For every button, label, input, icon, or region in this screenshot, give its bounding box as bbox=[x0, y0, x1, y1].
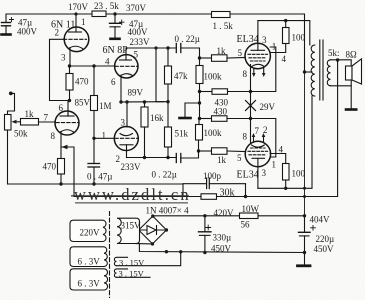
svg-text:23 . 5k: 23 . 5k bbox=[94, 1, 119, 11]
node EL34 lower grid bbox=[197, 149, 200, 152]
transformer 6.3V winding 1 bbox=[70, 247, 107, 267]
wire V1a grid to lower node bbox=[50, 39, 70, 100]
capacitor 220u 450V bbox=[299, 216, 316, 254]
svg-text:3: 3 bbox=[61, 53, 66, 63]
resistor 1k input bbox=[21, 119, 56, 126]
transformer 3.15V winding 2 bbox=[114, 269, 127, 277]
resistor 1.5k bbox=[212, 12, 231, 18]
resistor 430 upper bbox=[200, 89, 251, 95]
svg-text:0 . 22µ: 0 . 22µ bbox=[175, 34, 200, 44]
svg-text:470: 470 bbox=[75, 77, 89, 87]
svg-text:16k: 16k bbox=[150, 113, 164, 123]
svg-text:3: 3 bbox=[121, 118, 126, 128]
resistor 470 cathode V1b bbox=[58, 147, 65, 186]
node 430 upper junction bbox=[198, 90, 201, 93]
OPT primary winding bbox=[311, 45, 315, 96]
resistor 1k lower grid stopper bbox=[199, 148, 246, 155]
wire V2b plate 233V lower bbox=[127, 157, 177, 159]
transformer 3.15V winding 1 bbox=[114, 257, 127, 265]
svg-text:0 . 47µ: 0 . 47µ bbox=[87, 172, 112, 182]
svg-text:85V: 85V bbox=[75, 98, 91, 108]
tube V2a 6N8P first triode bbox=[115, 48, 138, 102]
svg-text:220V: 220V bbox=[80, 228, 101, 238]
input terminal bbox=[8, 92, 15, 115]
svg-text:8: 8 bbox=[243, 69, 248, 79]
resistor 430 lower bbox=[200, 116, 251, 122]
transformer 6.3V winding 2 bbox=[70, 269, 108, 290]
wire EL34 upper cathode bbox=[250, 65, 252, 92]
wire to V1b plate bbox=[67, 101, 69, 117]
svg-text:29V: 29V bbox=[260, 102, 276, 112]
svg-text:2: 2 bbox=[55, 28, 60, 38]
svg-text:EL34: EL34 bbox=[237, 34, 259, 45]
wire EL34 lower cathode bbox=[250, 141, 252, 144]
svg-text:220µ: 220µ bbox=[316, 234, 335, 244]
svg-text:89V: 89V bbox=[128, 88, 144, 98]
svg-text:450V: 450V bbox=[314, 244, 335, 254]
node V1b cathode junction with NFB arrow bbox=[61, 145, 74, 197]
ground speaker bbox=[346, 108, 356, 111]
svg-text:100p: 100p bbox=[203, 171, 222, 181]
svg-text:3 . 15V: 3 . 15V bbox=[119, 257, 145, 267]
wire EL34 upper plate to OPT bbox=[258, 21, 310, 45]
wire V2b cathode riser bbox=[126, 102, 128, 127]
svg-text:8: 8 bbox=[243, 132, 248, 142]
wire 430 center column + ground bbox=[185, 92, 201, 119]
wire secondary bottom bbox=[331, 85, 352, 87]
svg-text:www.dzdlt.cn: www.dzdlt.cn bbox=[74, 185, 191, 204]
node 470 bottom bbox=[68, 99, 71, 102]
svg-text:1 . 5k: 1 . 5k bbox=[213, 21, 234, 31]
svg-text:1k: 1k bbox=[25, 109, 35, 119]
resistor 51k bbox=[165, 102, 172, 160]
ground PSU bbox=[298, 253, 311, 266]
ground C2 bbox=[111, 37, 120, 40]
transformer core dashed bbox=[109, 212, 111, 298]
tube EL34 upper bbox=[245, 21, 270, 69]
tube V1a 6N11 first triode bbox=[64, 14, 89, 66]
svg-text:6: 6 bbox=[59, 103, 64, 113]
svg-text:400V: 400V bbox=[128, 27, 149, 37]
svg-text:1: 1 bbox=[272, 160, 277, 170]
svg-text:47k: 47k bbox=[174, 71, 188, 81]
wire EL34 lower plate to OPT bbox=[258, 96, 312, 188]
wire V2a plate 233V bbox=[126, 47, 176, 49]
wire g3 tie upper bbox=[251, 47, 276, 92]
svg-text:330µ: 330µ bbox=[213, 233, 232, 243]
svg-text:1: 1 bbox=[272, 42, 277, 52]
svg-text:233V: 233V bbox=[130, 37, 151, 47]
svg-text:6 . 3V: 6 . 3V bbox=[78, 257, 101, 267]
svg-text:100: 100 bbox=[292, 169, 306, 179]
resistor 1M bbox=[91, 64, 98, 138]
wire 420V rail bbox=[153, 215, 240, 217]
node tap dot bbox=[303, 70, 306, 73]
resistor R 470 (SRPP) bbox=[66, 66, 73, 101]
wire screen lower bbox=[270, 154, 286, 164]
transformer primary 220V winding bbox=[70, 220, 106, 241]
capacitor 0.22u upper bbox=[176, 44, 199, 59]
wire NFB to secondary bbox=[246, 60, 338, 197]
OPT secondary winding bbox=[327, 60, 330, 86]
node V2a cathode bbox=[119, 100, 122, 103]
resistor 23.5k bbox=[92, 11, 106, 17]
svg-text:8: 8 bbox=[51, 131, 56, 141]
svg-text:100k: 100k bbox=[204, 72, 223, 82]
wire 3.15V lower lead bbox=[117, 276, 151, 278]
svg-text:8Ω: 8Ω bbox=[346, 50, 358, 60]
svg-text:7: 7 bbox=[255, 126, 260, 136]
wire screen upper bbox=[270, 44, 286, 53]
svg-text:315V: 315V bbox=[121, 221, 142, 231]
OPT core bbox=[320, 40, 323, 100]
svg-text:3 . 15V: 3 . 15V bbox=[119, 269, 145, 279]
svg-text:100: 100 bbox=[292, 33, 306, 43]
svg-text:170V: 170V bbox=[68, 2, 89, 12]
X mark 29V bbox=[246, 101, 256, 111]
svg-text:450V: 450V bbox=[211, 244, 232, 254]
wire cathode column with X bbox=[250, 92, 252, 141]
svg-text:6 . 3V: 6 . 3V bbox=[78, 279, 101, 289]
wire B+ riser below tap bbox=[304, 72, 306, 216]
PSU: 1N4007 bridge bbox=[137, 214, 168, 245]
svg-text:100k: 100k bbox=[204, 128, 223, 138]
svg-text:1k: 1k bbox=[217, 155, 227, 165]
svg-text:4: 4 bbox=[105, 57, 110, 67]
heater pins EL34 lower bbox=[252, 133, 266, 142]
svg-text:2: 2 bbox=[263, 125, 268, 135]
capacitor C1 47u 400V bbox=[2, 18, 14, 34]
wire PSU 0V line bbox=[139, 244, 304, 253]
resistor 100k upper bbox=[196, 58, 203, 92]
tube EL34 lower (inverted) bbox=[245, 141, 270, 188]
wire 1M to V2b grid bbox=[94, 137, 115, 139]
wire cathode bus y=102 bbox=[121, 101, 168, 103]
svg-text:2: 2 bbox=[116, 154, 121, 164]
potentiometer 50k bbox=[5, 115, 21, 185]
wire top B+ rail 170V section bbox=[6, 14, 92, 22]
wire top rail to OPT center tap bbox=[230, 14, 305, 72]
node 1M bottom bbox=[92, 137, 95, 140]
ground C1 bbox=[2, 33, 11, 36]
svg-text:1: 1 bbox=[102, 131, 107, 141]
svg-text:5: 5 bbox=[238, 48, 243, 58]
svg-text:3: 3 bbox=[262, 35, 267, 45]
capacitor 0.22u lower bbox=[176, 151, 198, 163]
svg-text:1: 1 bbox=[81, 17, 86, 27]
wire secondary top to speaker bbox=[331, 60, 352, 66]
svg-text:1k: 1k bbox=[217, 46, 227, 56]
wire tap stub bbox=[305, 71, 313, 73]
svg-text:30k: 30k bbox=[220, 188, 235, 199]
svg-text:EL34: EL34 bbox=[237, 170, 259, 181]
node EL34 upper grid bbox=[198, 56, 201, 59]
svg-text:7: 7 bbox=[44, 113, 49, 123]
transformer 315V winding bbox=[117, 218, 140, 243]
svg-text:6N 8P: 6N 8P bbox=[103, 45, 129, 56]
speaker bbox=[346, 59, 362, 109]
svg-text:0 . 22µ: 0 . 22µ bbox=[152, 170, 177, 180]
svg-text:50k: 50k bbox=[14, 129, 28, 139]
node 430 lower junction bbox=[198, 117, 201, 120]
capacitor 0.47u bbox=[88, 138, 100, 185]
NFB network 100p + 30k bbox=[74, 178, 247, 199]
capacitor C2 47u 400V bbox=[110, 12, 125, 38]
heater pins EL34 upper bbox=[252, 68, 266, 78]
svg-text:3: 3 bbox=[262, 168, 267, 178]
resistor 100 lower bbox=[283, 164, 290, 191]
svg-text:1M: 1M bbox=[99, 101, 112, 111]
resistor 16k bbox=[141, 100, 148, 159]
svg-text:51k: 51k bbox=[175, 129, 189, 139]
svg-text:370V: 370V bbox=[126, 3, 147, 13]
resistor 100 upper bbox=[283, 19, 290, 44]
tube V1b 6N11 second triode bbox=[55, 111, 79, 147]
svg-text:470: 470 bbox=[43, 162, 57, 172]
resistor 47k bbox=[165, 46, 172, 103]
wire heater center tap bbox=[117, 252, 181, 266]
wire plate-to-cathode-node link bbox=[156, 48, 164, 102]
resistor 1k upper grid stopper bbox=[200, 55, 246, 62]
svg-text:400V: 400V bbox=[17, 27, 38, 37]
svg-text:1N 4007× 4: 1N 4007× 4 bbox=[146, 206, 190, 216]
svg-text:420V: 420V bbox=[214, 208, 235, 218]
wire cathode to V2a grid bbox=[70, 65, 115, 67]
resistor 56 10W bbox=[240, 213, 259, 219]
svg-text:4: 4 bbox=[279, 145, 284, 155]
svg-text:5: 5 bbox=[134, 50, 139, 60]
wire g3 tie lower bbox=[251, 119, 276, 158]
svg-text:10W: 10W bbox=[242, 204, 260, 214]
svg-text:5k:: 5k: bbox=[328, 48, 340, 58]
capacitor 330u 450V bbox=[199, 216, 212, 254]
resistor 100k lower bbox=[196, 119, 203, 152]
svg-text:6: 6 bbox=[111, 77, 116, 87]
wire top B+ rail 370V section bbox=[106, 13, 212, 15]
svg-text:4: 4 bbox=[282, 54, 287, 64]
wire ground rail bbox=[8, 183, 184, 185]
node V1a cathode junction bbox=[68, 64, 71, 67]
svg-text:233V: 233V bbox=[121, 162, 142, 172]
svg-text:430: 430 bbox=[214, 107, 228, 117]
svg-text:5: 5 bbox=[237, 153, 242, 163]
ground 430 junction bbox=[180, 117, 191, 120]
svg-text:56: 56 bbox=[241, 220, 251, 230]
tube V2b 6N8P second triode (inverted) bbox=[114, 127, 138, 158]
svg-text:404V: 404V bbox=[310, 215, 331, 225]
